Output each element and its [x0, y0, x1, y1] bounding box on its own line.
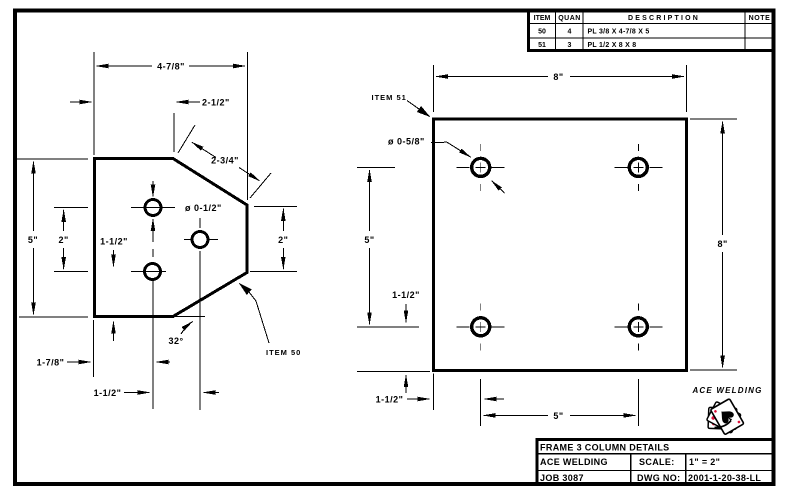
svg-text:NOTE: NOTE [749, 15, 771, 22]
svg-text:SCALE:: SCALE: [639, 457, 675, 467]
svg-text:1-1/2": 1-1/2" [100, 237, 128, 247]
svg-text:50: 50 [538, 28, 546, 35]
svg-text:1" = 2": 1" = 2" [689, 457, 720, 467]
svg-text:51: 51 [538, 42, 546, 49]
svg-text:DESCRIPTION: DESCRIPTION [628, 15, 700, 22]
svg-text:5": 5" [364, 235, 374, 245]
svg-text:ITEM 51: ITEM 51 [372, 93, 407, 102]
svg-text:2-3/4": 2-3/4" [211, 156, 239, 166]
svg-text:DWG NO:: DWG NO: [637, 473, 680, 483]
svg-text:FRAME 3 COLUMN DETAILS: FRAME 3 COLUMN DETAILS [540, 443, 670, 453]
svg-text:JOB 3087: JOB 3087 [540, 473, 584, 483]
svg-text:1-1/2": 1-1/2" [376, 395, 404, 405]
svg-text:PL 1/2 X 8 X 8: PL 1/2 X 8 X 8 [588, 42, 637, 49]
svg-text:ø 0-1/2": ø 0-1/2" [185, 203, 222, 213]
svg-text:8": 8" [553, 72, 563, 82]
svg-text:ø 0-5/8": ø 0-5/8" [388, 137, 425, 147]
svg-text:ITEM: ITEM [534, 15, 551, 22]
svg-text:2": 2" [59, 235, 69, 245]
svg-text:2-1/2": 2-1/2" [202, 98, 230, 108]
svg-text:ACE WELDING: ACE WELDING [691, 386, 762, 395]
svg-text:1-7/8": 1-7/8" [37, 358, 65, 368]
svg-text:PL 3/8 X 4-7/8 X 5: PL 3/8 X 4-7/8 X 5 [588, 28, 650, 35]
svg-text:3: 3 [568, 42, 572, 49]
svg-text:1-1/2": 1-1/2" [392, 290, 420, 300]
svg-text:ACE WELDING: ACE WELDING [540, 457, 608, 467]
svg-text:5": 5" [28, 235, 38, 245]
svg-text:5": 5" [553, 411, 563, 421]
svg-text:2": 2" [278, 235, 288, 245]
svg-text:2001-1-20-38-LL: 2001-1-20-38-LL [688, 473, 761, 483]
svg-text:8": 8" [717, 239, 727, 249]
svg-text:ITEM 50: ITEM 50 [266, 348, 301, 357]
svg-text:4-7/8": 4-7/8" [157, 62, 185, 72]
svg-text:32°: 32° [168, 336, 183, 346]
svg-text:1-1/2": 1-1/2" [94, 388, 122, 398]
svg-text:4: 4 [568, 28, 572, 35]
svg-text:QUAN: QUAN [558, 15, 581, 22]
